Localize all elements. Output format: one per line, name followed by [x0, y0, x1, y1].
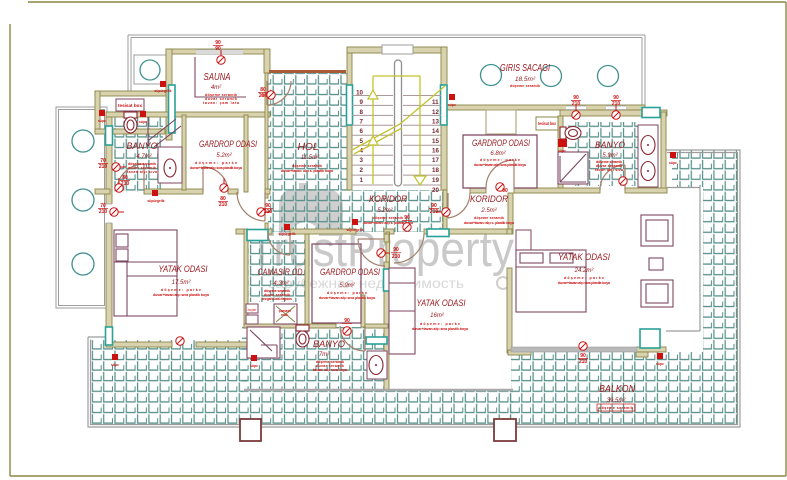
tiled floor BANYO 4.7 [114, 117, 163, 192]
stair arrow up [368, 90, 378, 99]
shower screen banyo47 [147, 117, 149, 146]
window sauna top [196, 50, 243, 55]
svg-text:tesisat box: tesisat box [118, 103, 143, 108]
svg-text:süpürgelik: süpürgelik [278, 232, 295, 236]
DOORS [117, 81, 625, 351]
wall banyo row bottom seg2 [144, 189, 203, 194]
svg-text:tavan: çam lata: tavan: çam lata [203, 101, 240, 105]
window right row wall 2 [606, 106, 626, 111]
window left wall door gap [105, 204, 113, 223]
window sauna left [169, 85, 176, 133]
wall right exterior banyo [661, 112, 666, 190]
FURNITURE [114, 215, 673, 354]
dimension text F6 [98, 203, 108, 215]
room box gardrop68 [463, 135, 537, 188]
svg-text:BANYO: BANYO [595, 140, 625, 150]
svg-text:duvar+tavan:alçı sıva plastik: duvar+tavan:alçı sıva plastik boya [412, 327, 469, 331]
skirting marker S11 [669, 152, 677, 165]
wall banyo-gardrop divider [182, 115, 186, 190]
svg-text:döşeme: parke: döşeme: parke [161, 288, 201, 292]
dimension text F1 [213, 40, 223, 52]
supurgelik markers [98, 81, 677, 368]
dimension text F7 [263, 203, 273, 215]
svg-text:KORIDOR: KORIDOR [369, 194, 407, 205]
dimension text F10 [402, 215, 412, 228]
skirting marker S4 [448, 94, 456, 107]
toilet upper right [560, 127, 581, 140]
svg-text:210: 210 [99, 164, 108, 170]
wardrobe A [641, 215, 673, 246]
svg-text:süpc: süpc [111, 363, 119, 367]
door marker D7 [257, 208, 270, 216]
svg-text:süpürgelik: süpürgelik [154, 89, 171, 93]
svg-text:210: 210 [259, 93, 268, 99]
svg-text:tavan alçı sıva: tavan alçı sıva [595, 168, 624, 172]
svg-text:duvar+tavan:alçı sıva plastik: duvar+tavan:alçı sıva plastik boya [153, 293, 210, 297]
wall toilet block left [95, 91, 100, 134]
skirting marker S2 [98, 110, 106, 123]
svg-text:BANYO: BANYO [313, 339, 346, 350]
skirting marker S7 [278, 224, 295, 236]
shower banyo59 [558, 152, 588, 184]
dimension text F3 [120, 175, 130, 187]
svg-text:2.5m²: 2.5m² [480, 208, 497, 214]
toilet upper left [124, 112, 137, 133]
svg-text:döşeme seramik: döşeme seramik [510, 84, 540, 88]
tiled balcony center [247, 390, 513, 425]
svg-text:süpc: süpc [558, 149, 566, 153]
svg-text:3: 3 [360, 157, 364, 164]
door marker D8 [377, 249, 390, 257]
canopy circle 3 [598, 66, 619, 87]
dimension text F14 [578, 353, 588, 365]
wall banyo59 left [558, 116, 563, 190]
window yatak17 left [106, 327, 113, 345]
door marker D2 [261, 91, 275, 99]
wall camasir top seg2 [290, 229, 356, 234]
watermark small mark [497, 277, 509, 289]
svg-text:210: 210 [612, 101, 621, 107]
wall stairwell left [347, 52, 352, 190]
svg-text:tavan alçı sıva: tavan alçı sıva [127, 170, 158, 174]
small planter box top-left [134, 55, 166, 84]
wall right row bottom seg1 [470, 188, 486, 193]
tiled balcony right [511, 352, 703, 425]
bed yatak17 [114, 230, 177, 316]
wall stairwell right [441, 47, 447, 190]
svg-text:1: 1 [360, 177, 364, 184]
wall yatak17 bottom seg2 [196, 342, 247, 347]
wall sauna top [166, 49, 268, 54]
dimension text F2 [258, 87, 268, 99]
wall yatak17 bottom seg1 [106, 342, 172, 347]
planter circle 2 [72, 189, 94, 211]
door yatak16 [394, 234, 424, 263]
door marker D5 [112, 163, 126, 171]
svg-text:döşeme seramik: döşeme seramik [599, 406, 633, 410]
dimension text F16 [611, 95, 621, 107]
skirting marker S1 [154, 81, 171, 93]
door marker D13 [343, 327, 351, 335]
svg-text:döşeme: parke: döşeme: parke [327, 291, 367, 295]
wardrobe B [641, 280, 673, 307]
wall camasir left [244, 229, 248, 327]
svg-text:duvar+tavan: alçı s. plastik b: duvar+tavan: alçı s. plastik boya [281, 169, 334, 173]
svg-text:210: 210 [99, 209, 108, 215]
window camasir top [247, 230, 268, 241]
wall right row bottom seg3 [625, 188, 667, 193]
svg-text:döşeme seramik: döşeme seramik [474, 216, 504, 220]
wall camasir top seg1 [236, 229, 247, 234]
wall camasir-gardrop59 divider [305, 234, 309, 325]
door marker D16 [572, 105, 580, 119]
closet gardrop68 [486, 110, 516, 134]
skirting marker S3 [139, 111, 147, 124]
planter balcony corner [640, 329, 660, 348]
svg-text:16: 16 [432, 148, 439, 155]
window banyo47 left [106, 126, 113, 145]
tiled floor BANYO bottom [242, 327, 388, 390]
svg-text:GARDROP ODASI: GARDROP ODASI [320, 267, 380, 278]
watermark logo house [279, 183, 343, 236]
stair center rail [395, 60, 402, 186]
svg-text:döşeme: parke: döşeme: parke [564, 276, 604, 280]
svg-text:12: 12 [432, 109, 439, 116]
nightstand yatak24 [516, 230, 531, 251]
toilet banyo7 [296, 325, 309, 347]
svg-text:CAMASIR OD.: CAMASIR OD. [258, 267, 305, 278]
stair numbers left [356, 90, 363, 185]
svg-text:18.5m²: 18.5m² [515, 76, 536, 83]
wall yatak16 bottom grey [244, 389, 513, 391]
svg-text:90: 90 [215, 46, 221, 52]
svg-text:13: 13 [432, 119, 439, 126]
svg-text:210: 210 [579, 359, 588, 365]
window stair right [441, 85, 448, 125]
svg-text:90: 90 [344, 318, 350, 324]
svg-text:süpc: süpc [656, 362, 664, 366]
svg-text:süpürgelik: süpürgelik [346, 228, 363, 232]
door koridor25 [448, 193, 470, 218]
wall banyo row bottom seg3 [228, 189, 238, 194]
door banyo47 [117, 164, 144, 191]
svg-text:210: 210 [572, 101, 581, 107]
wall sauna left [166, 49, 172, 140]
door marker D6 [110, 208, 124, 216]
wall banyo59 top [560, 110, 667, 116]
svg-text:YATAK ODASI: YATAK ODASI [417, 298, 466, 309]
svg-text:BALKON: BALKON [599, 384, 636, 395]
wall banyo7 top seg1 [244, 324, 336, 328]
boiler boxes [246, 304, 258, 313]
window banyo7 niche [366, 337, 387, 344]
svg-text:5.9m²: 5.9m² [602, 153, 618, 159]
planter circle 1 [72, 130, 94, 152]
dimension text F4 [218, 196, 228, 208]
svg-text:duvar+tavan:alçı sıva plastik: duvar+tavan:alçı sıva plastik boya [558, 281, 611, 285]
svg-text:duvar+tavan:alçı sıva plastik: duvar+tavan:alçı sıva plastik boya [474, 163, 527, 167]
svg-text:7: 7 [360, 119, 364, 126]
skirting marker S10 [656, 353, 664, 366]
svg-text:boyler: boyler [248, 308, 258, 312]
svg-text:9: 9 [360, 99, 364, 106]
dimension text F9 [429, 203, 439, 215]
teal windows [106, 85, 661, 348]
room box gardrop59 [312, 244, 361, 323]
tesisat label box right [536, 117, 558, 130]
tiled floor HOL + KORIDOR [268, 73, 443, 232]
skirting marker S9 [250, 355, 258, 368]
svg-text:39.5m²: 39.5m² [607, 398, 627, 404]
svg-text:17.5m²: 17.5m² [172, 280, 192, 286]
dimension text F8 [391, 247, 401, 260]
svg-text:döşeme seramik: döşeme seramik [373, 216, 403, 220]
skirting marker S6 [346, 219, 363, 232]
svg-text:YATAK ODASI: YATAK ODASI [558, 252, 610, 263]
stair numbers right [432, 99, 439, 194]
svg-text:süpc: süpc [669, 161, 677, 165]
wall sauna bottom row [106, 112, 270, 117]
svg-text:15: 15 [432, 138, 439, 145]
door marker D4 [220, 178, 228, 192]
ROOM LABELS [127, 63, 636, 404]
wall yatak24 bottom [511, 347, 637, 352]
svg-text:17: 17 [432, 157, 439, 164]
svg-text:19: 19 [432, 177, 439, 184]
svg-text:YATAK ODASI: YATAK ODASI [159, 264, 208, 275]
svg-text:18: 18 [432, 167, 439, 174]
wall yatak16 left seg2 [384, 262, 389, 390]
svg-text:11.5m²: 11.5m² [301, 155, 320, 161]
window banyo59 top [642, 108, 660, 118]
wall bedroom block top seg2 [384, 229, 394, 234]
wall banyo7 top seg2 [365, 324, 388, 328]
svg-text:5.9m²: 5.9m² [339, 283, 355, 289]
wardrobe small [649, 258, 663, 270]
sink banyo7 [367, 351, 387, 379]
svg-text:süpc: süpc [98, 119, 106, 123]
svg-text:2: 2 [360, 167, 364, 174]
wall yatak16-yatak24 divider upper [507, 229, 512, 234]
wall sauna right [264, 49, 270, 73]
svg-text:210: 210 [121, 181, 130, 187]
svg-text:süpc: süpc [448, 103, 456, 107]
svg-text:tezgah üstü fayans: tezgah üstü fayans [262, 297, 292, 301]
svg-text:tavan: alçı sıva boya: tavan: alçı sıva boya [313, 368, 348, 372]
door marker D1 [217, 50, 225, 64]
wall hol left thin [265, 73, 268, 198]
window yatak16 top [427, 229, 449, 237]
stair arrow down [414, 176, 426, 185]
door marker D15 [619, 177, 627, 185]
svg-text:döşeme seramik: döşeme seramik [292, 164, 322, 168]
svg-text:20: 20 [432, 187, 439, 194]
door gardrop59 [358, 239, 385, 266]
door marker D14 [579, 342, 587, 350]
svg-text:4m²: 4m² [211, 85, 222, 91]
svg-text:döşeme: parke: döşeme: parke [420, 322, 460, 326]
wall nook stub [386, 232, 390, 268]
door marker D18 [176, 337, 184, 345]
svg-text:GARDROP ODASI: GARDROP ODASI [472, 138, 530, 149]
svg-text:6.8m²: 6.8m² [490, 151, 506, 157]
door banyo59 [600, 165, 625, 190]
door marker D10 [403, 223, 411, 231]
window right row wall 1 [566, 106, 586, 111]
door marker D17 [612, 105, 620, 119]
window stair left [347, 85, 353, 125]
tiled terrace right band [703, 150, 737, 425]
svg-text:SAUNA: SAUNA [204, 72, 231, 83]
red wall marker box [558, 139, 567, 147]
left planter strip [56, 107, 107, 308]
stairwell top recess [382, 45, 413, 54]
svg-text:süpürgelik: süpürgelik [147, 199, 164, 203]
door marker D3 [115, 178, 123, 192]
wall toilet block bottom [95, 129, 165, 134]
shower banyo7 [247, 327, 280, 358]
wall toilet block top [95, 91, 166, 96]
door camasir [268, 233, 290, 255]
vanity banyo59 [638, 125, 658, 187]
svg-text:süpc: süpc [139, 120, 147, 124]
svg-text:mak.: mak. [281, 313, 289, 317]
svg-text:döşeme: parke: döşeme: parke [195, 161, 237, 165]
washing machine [274, 304, 297, 324]
stair handrail yellow [352, 76, 445, 184]
balcony boundary [88, 150, 740, 427]
wall yatak16-yatak24 divider [507, 268, 512, 353]
wall gardrop59 right [361, 295, 365, 327]
svg-text:90: 90 [393, 247, 399, 253]
wall divider foot [508, 350, 531, 355]
STAIRS [352, 96, 441, 186]
wall bedroom block top seg3 [449, 229, 513, 234]
door marker D11 [496, 183, 504, 191]
svg-text:duvar+tavan: alçı s. plastik b: duvar+tavan: alçı s. plastik boya [464, 221, 515, 225]
door marker D9 [436, 208, 450, 216]
tiled balcony left [90, 340, 247, 425]
planter circle 3 [72, 253, 94, 275]
svg-text:GIRIS SACAGI: GIRIS SACAGI [500, 63, 550, 74]
svg-text:7m²: 7m² [319, 352, 330, 358]
svg-text:döşeme: parke: döşeme: parke [480, 158, 520, 162]
svg-text:duvar+tavan:alçı sıva plastik: duvar+tavan:alçı sıva plastik boya [190, 166, 243, 170]
svg-text:16m²: 16m² [430, 313, 445, 319]
tesisat label box left [116, 99, 144, 111]
svg-text:11: 11 [432, 99, 439, 106]
wall gardrop52 right [244, 115, 248, 192]
canopy circle 1 [481, 65, 502, 86]
DOOR MARKERS (red circle symbols) [110, 50, 627, 350]
skirting marker S5 [147, 190, 164, 203]
svg-text:210: 210 [264, 209, 273, 215]
svg-text:GARDROP ODASI: GARDROP ODASI [199, 139, 257, 150]
WALLS [95, 47, 667, 390]
columns [240, 419, 261, 441]
canopy circle 2 [541, 66, 562, 87]
sauna bench [195, 57, 246, 97]
tiled floor BANYO upper right [568, 122, 640, 186]
wall banyo row bottom seg1 [95, 189, 110, 194]
vanity banyo47 [158, 147, 182, 183]
svg-text:5.2m²: 5.2m² [216, 153, 232, 159]
svg-text:6: 6 [360, 128, 364, 135]
bed yatak24 [516, 250, 586, 312]
wall stairwell top [347, 47, 447, 53]
svg-text:4.3m²: 4.3m² [273, 281, 289, 287]
tiled floor CAMASIR [248, 240, 305, 302]
svg-text:10: 10 [356, 90, 363, 97]
svg-text:8: 8 [360, 109, 364, 116]
door gardrop52 [203, 167, 228, 192]
bed yatak16 [389, 268, 415, 354]
shower corner banyo47 [149, 119, 181, 147]
svg-text:BANYO: BANYO [127, 141, 158, 151]
svg-text:5.2m²: 5.2m² [377, 208, 393, 214]
wall yatak16 left seg1 [384, 234, 389, 242]
svg-text:duvar+tavan:alçı sıva plastik: duvar+tavan:alçı sıva plastik boya [319, 296, 376, 300]
dimension text F13 [342, 318, 352, 324]
dimension text F11 [501, 188, 510, 200]
wall right row bottom seg2 [514, 188, 600, 193]
svg-text:14: 14 [432, 128, 439, 135]
wall koridor right [508, 193, 513, 229]
svg-text:210: 210 [392, 254, 401, 260]
svg-text:24.2m²: 24.2m² [574, 268, 595, 274]
svg-text:210: 210 [219, 202, 228, 208]
svg-text:90: 90 [404, 215, 410, 221]
tiled terrace top band [672, 150, 703, 187]
dimension text F5 [98, 158, 108, 170]
dimension text F15 [571, 95, 581, 107]
wall koridor left thin [443, 190, 447, 232]
door banyo7 [340, 326, 365, 351]
wall left exterior [106, 112, 112, 347]
skirting marker S8 [111, 354, 119, 367]
wall planter bracket [636, 347, 666, 352]
wall right row top [447, 105, 645, 110]
svg-text:4.7m²: 4.7m² [136, 154, 152, 160]
door yatak17 [237, 192, 265, 221]
svg-text:süpc: süpc [250, 364, 258, 368]
door gardrop68 [486, 160, 514, 188]
svg-text:210: 210 [430, 209, 439, 215]
svg-text:HOL: HOL [298, 142, 319, 153]
window yatak16 left [384, 269, 390, 291]
dimension fraction texts [98, 40, 621, 365]
door sauna lobby [267, 81, 291, 105]
canopy boundary top [108, 35, 645, 110]
spec text lines (red) [127, 84, 633, 410]
svg-text:tesisat box: tesisat box [538, 121, 556, 126]
sienna hol top line [269, 70, 346, 73]
